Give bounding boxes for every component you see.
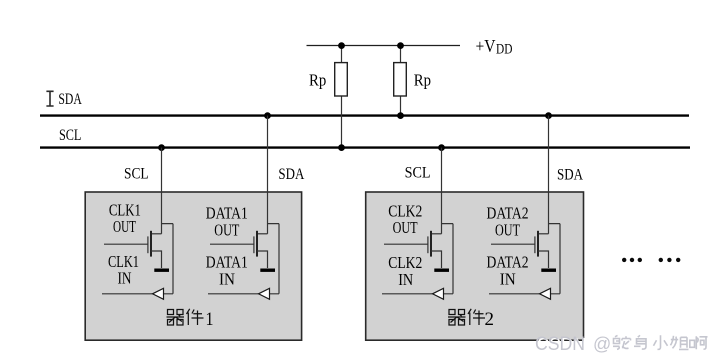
svg-text:DD: DD (496, 42, 513, 58)
svg-text:2: 2 (485, 310, 495, 330)
watermark char 鸟 (634, 335, 647, 350)
wire SDA bus (40, 114, 689, 116)
junction dot SCL left resistor (338, 144, 345, 151)
svg-text:SCL: SCL (59, 127, 81, 144)
件 (468, 309, 485, 325)
器 (168, 310, 184, 315)
resistor Rp (left, to SCL) (341, 46, 343, 148)
svg-text:IN: IN (398, 270, 413, 289)
ellipsis dots (continuation) (622, 258, 680, 262)
watermark char 姐 (671, 336, 690, 351)
件 (187, 309, 204, 325)
svg-text:SDA: SDA (58, 91, 82, 108)
svg-text:@: @ (593, 334, 611, 354)
transistor Q2 DATA1 cell (208, 224, 279, 300)
I-beam cursor glyph (46, 91, 53, 106)
svg-text:IN: IN (500, 270, 516, 289)
junction dot SCL device2 tap (438, 144, 445, 151)
wire SDA tap to device2 (548, 116, 550, 234)
svg-text:IN: IN (219, 270, 235, 289)
svg-text:OUT: OUT (495, 220, 520, 239)
svg-text:OUT: OUT (214, 220, 239, 239)
watermark CSDN @鸵鸟小姐啊 (535, 334, 613, 357)
junction dot rail-right resistor (397, 42, 404, 49)
junction dot SCL device1 tap (158, 144, 165, 151)
svg-text:1: 1 (206, 310, 214, 330)
svg-text:OUT: OUT (393, 218, 418, 237)
wire SCL bus (40, 146, 690, 148)
svg-text:Rp: Rp (309, 71, 326, 90)
svg-text:CSDN: CSDN (535, 334, 585, 355)
svg-text:OUT: OUT (113, 217, 136, 236)
watermark char 鸵 (613, 335, 632, 350)
svg-text:Rp: Rp (414, 71, 431, 90)
svg-text:SCL: SCL (124, 166, 149, 183)
svg-text:IN: IN (118, 268, 132, 287)
junction dot SDA device1 tap (264, 112, 271, 119)
svg-text:SCL: SCL (405, 165, 431, 182)
watermark char 小 (654, 335, 669, 350)
transistor Q4 DATA2 cell (489, 224, 560, 300)
transistor Q1 CLK1 cell (102, 224, 173, 300)
wire +VDD rail (307, 45, 461, 47)
svg-text:SDA: SDA (278, 166, 305, 183)
transistor Q3 CLK2 cell (382, 224, 453, 300)
junction dot rail-left resistor (338, 42, 345, 49)
label 器件1 (167, 309, 214, 330)
junction dot SDA right resistor (397, 112, 404, 119)
watermark char 啊 (690, 336, 709, 350)
resistor Rp (right, to SDA) (400, 46, 402, 116)
wire SCL tap to device1 (161, 148, 163, 234)
svg-text:+V: +V (476, 36, 496, 56)
device box 1 (器件1) (85, 192, 301, 340)
svg-text:SDA: SDA (557, 166, 584, 183)
device box 2 (器件2) (366, 192, 584, 340)
器 (449, 310, 465, 315)
label 器件2 (448, 309, 494, 330)
wire SDA tap to device1 (267, 116, 269, 234)
junction dot SDA device2 tap (545, 112, 552, 119)
wire SCL tap to device2 (441, 148, 443, 234)
